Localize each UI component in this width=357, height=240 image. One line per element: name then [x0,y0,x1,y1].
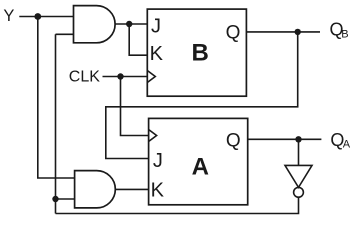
svg-text:K: K [151,180,165,202]
svg-text:A: A [192,154,209,181]
svg-text:Q: Q [226,130,241,151]
svg-text:Q: Q [226,22,241,43]
svg-text:B: B [192,40,209,67]
svg-text:Y: Y [3,7,14,25]
svg-text:J: J [153,150,163,172]
svg-text:B: B [341,28,348,40]
svg-text:J: J [151,16,161,38]
svg-text:K: K [150,43,164,65]
svg-text:CLK: CLK [69,69,100,86]
svg-text:A: A [343,139,351,151]
